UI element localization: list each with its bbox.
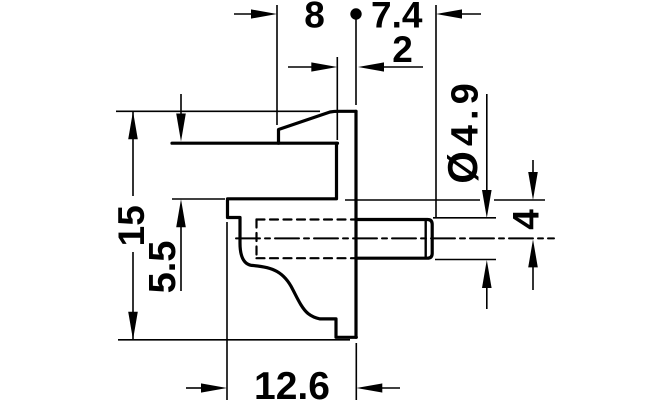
arrowhead 12.6 right (points left at x=356.3) <box>356 383 382 392</box>
arrowhead 5.5 top (points down at y=141.5) <box>176 114 186 142</box>
extension line 12.6-left (x=227) <box>226 222 228 400</box>
hidden hole top (dashed) <box>257 218 357 220</box>
arrowhead 15 bottom (points down at y=339.8) <box>128 312 138 340</box>
extension line tab top (y=111.3) <box>116 110 320 112</box>
dot separator 8/7.4 <box>350 8 361 19</box>
arrowhead 4 bottom (points up at y=239.4) <box>528 239 538 267</box>
svg-text:15: 15 <box>111 205 152 246</box>
extension line pin bottom (y=259.5) <box>435 259 496 261</box>
dimension D4.9 line upper <box>486 94 488 191</box>
svg-text:2: 2 <box>392 29 413 70</box>
svg-text:5.5: 5.5 <box>142 241 184 294</box>
extension line bottom (y=339.8) <box>118 339 350 341</box>
hidden hole end (dashed) <box>255 220 257 259</box>
dimension 15 line upper <box>132 112 134 196</box>
extension line 8-left (x=277) <box>276 5 278 125</box>
dimension 12.6 shaft right <box>381 387 400 389</box>
hidden hole bottom (dashed) <box>257 257 357 259</box>
top tab (spur) outline <box>279 111 357 143</box>
dimension 2 arrow shaft right <box>383 66 423 68</box>
dimension 5.5 shaft lower <box>180 224 182 291</box>
arrowhead 2 left (points right at x=337.3) <box>311 62 337 71</box>
svg-text:Ø4.9: Ø4.9 <box>440 78 487 184</box>
arrowhead 15 top (points up at y=111.3) <box>128 111 138 139</box>
dimension 2 arrow shaft left <box>288 66 312 68</box>
dimension 15 line lower <box>132 252 134 339</box>
arrowhead D4.9 top (points down at y=218) <box>482 190 492 218</box>
pin end chamfer line <box>425 221 427 257</box>
extension line arm top (y=199) <box>172 198 225 200</box>
extension line 2-left (x=337.3) <box>336 57 338 140</box>
centerline (pin axis) <box>236 237 554 239</box>
arrowhead D4.9 bottom (points up at y=260) <box>482 260 492 288</box>
dimension 8 arrow shaft left <box>234 13 252 15</box>
extension line 7.4-right / pin end (x=436) <box>435 5 437 218</box>
dimension 4 shaft upper <box>532 160 534 175</box>
extension line 4-top (y=200) <box>345 199 545 201</box>
flange right face <box>354 111 357 337</box>
extension line dot (x=356) <box>355 14 357 105</box>
shelf line (part top plate / tab underside) <box>172 142 338 145</box>
dimension 5.5 shaft upper <box>180 94 182 117</box>
arrowhead 8 (points right at x=277) <box>251 9 277 18</box>
extension line 12.6-right (x=356.3) <box>355 343 357 400</box>
pin outline <box>358 220 433 259</box>
arrowhead 5.5 bottom (points up at y=199.3) <box>176 199 186 227</box>
svg-text:4: 4 <box>506 209 547 230</box>
dimension 7.4 arrow shaft right <box>462 13 481 15</box>
extension line pin top (y=217.8) <box>433 217 496 219</box>
dimension 12.6 shaft left <box>186 387 202 389</box>
arrowhead 2 right (points left at x=358) <box>358 62 384 71</box>
dimension 4 shaft lower <box>532 267 534 290</box>
flange and body outline <box>228 143 357 337</box>
arrowhead 4 top (points down at y=200) <box>528 172 538 200</box>
dimension D4.9 shaft lower <box>486 287 488 309</box>
svg-text:8: 8 <box>304 0 325 36</box>
arrowhead 12.6 left (points right at x=227) <box>201 383 227 392</box>
arrowhead 7.4 (points left at x=436) <box>436 9 462 18</box>
svg-text:12.6: 12.6 <box>254 365 330 400</box>
